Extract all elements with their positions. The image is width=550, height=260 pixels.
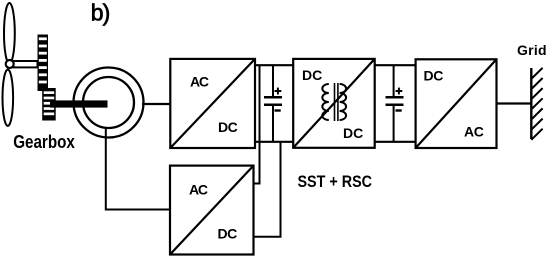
svg-text:AC: AC [190, 74, 209, 90]
wire RSC negative rail [254, 142, 281, 237]
transformer T1 core [335, 83, 338, 121]
dc bus top 1 [255, 64, 293, 66]
dc bus bottom 1 [255, 141, 293, 143]
wire generator to MSC [142, 103, 170, 105]
generator G [74, 68, 144, 138]
svg-text:DC: DC [218, 119, 238, 135]
svg-text:Gearbox: Gearbox [13, 132, 75, 152]
rotor shaft link [14, 61, 38, 67]
converter block U2 AC/DC (rotor side RSC) [170, 166, 254, 255]
wire RSC positive rail [254, 65, 260, 183]
gearbox gear small [42, 88, 56, 121]
svg-text:DC: DC [343, 125, 363, 141]
wire generator to RSC [106, 127, 170, 210]
wire inverter to grid [497, 102, 532, 104]
dc bus bottom 2 [375, 141, 416, 143]
capacitor C1 [264, 65, 282, 142]
SST block U3 DC/DC [293, 59, 375, 148]
svg-text:b): b) [91, 0, 111, 25]
svg-text:DC: DC [424, 67, 444, 83]
turbine blade top [4, 3, 15, 64]
svg-text:Grid: Grid [517, 42, 547, 58]
svg-text:DC: DC [302, 67, 322, 83]
transformer T1 secondary winding [340, 84, 347, 120]
inverter block U4 DC/AC (grid side) [416, 59, 497, 148]
svg-text:SST + RSC: SST + RSC [298, 172, 373, 191]
svg-text:AC: AC [189, 182, 208, 198]
main shaft [50, 100, 108, 107]
transformer T1 primary winding [322, 84, 329, 120]
svg-text:AC: AC [464, 124, 484, 140]
capacitor C2 [386, 65, 404, 142]
gearbox gear large [38, 35, 49, 92]
converter block U1 AC/DC (machine side) [170, 59, 255, 148]
turbine hub [6, 60, 14, 68]
turbine blade bottom [3, 70, 14, 126]
grid symbol wall [531, 68, 542, 140]
svg-text:DC: DC [218, 226, 238, 242]
dc bus top 2 [375, 64, 416, 66]
